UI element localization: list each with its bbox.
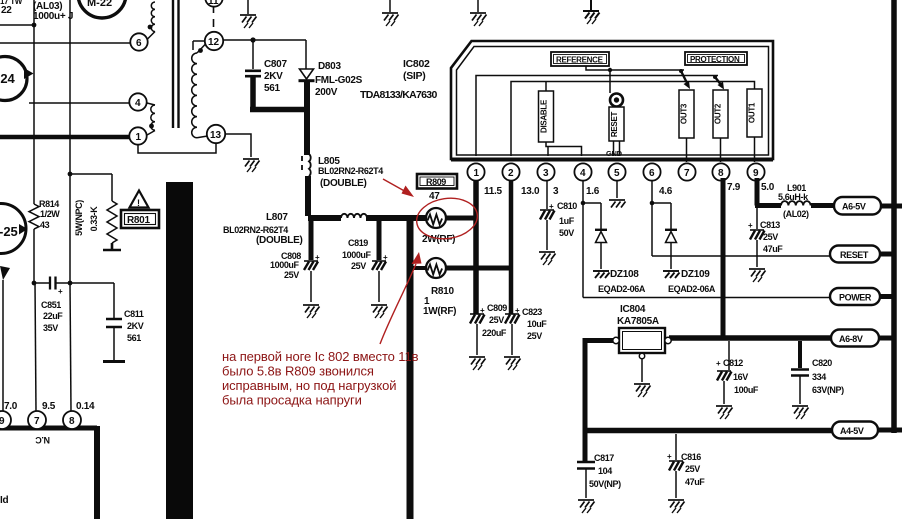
node junction dot C807 top: [250, 37, 255, 42]
svg-text:RESET: RESET: [610, 112, 619, 138]
svg-text:DISABLE: DISABLE: [540, 99, 549, 133]
wire horizontal y43 to pin 6: [0, 42, 130, 44]
wire thick bottom-left horizontal: [0, 426, 97, 431]
svg-text:2KV: 2KV: [264, 71, 283, 82]
svg-text:OUT2: OUT2: [714, 103, 723, 124]
svg-text:C812: C812: [723, 358, 743, 368]
svg-text:10uF: 10uF: [527, 319, 547, 329]
red arrow to R809: [383, 179, 408, 193]
capacitor C817: [577, 462, 595, 498]
svg-text:5.0: 5.0: [761, 182, 775, 193]
pin 5: [608, 163, 625, 180]
pin 3: [537, 163, 554, 180]
svg-text:R809: R809: [426, 177, 446, 187]
svg-text:11.5: 11.5: [484, 186, 502, 197]
svg-text:RESET: RESET: [840, 250, 869, 260]
svg-text:9: 9: [0, 416, 5, 427]
svg-text:2KV: 2KV: [127, 321, 144, 331]
svg-text:5.6uH-k: 5.6uH-k: [778, 192, 809, 202]
svg-text:8: 8: [718, 168, 724, 179]
wire R810 stubs: [413, 266, 426, 270]
svg-text:7: 7: [34, 416, 40, 427]
wire R814 down to C851 row: [33, 229, 35, 283]
svg-text:63V(NP): 63V(NP): [812, 385, 844, 395]
wire pin8 drop: [70, 283, 71, 411]
svg-text:50V: 50V: [559, 228, 574, 238]
ground under C817: [578, 500, 595, 513]
inductor L805: [302, 154, 311, 216]
svg-text:25V: 25V: [351, 261, 366, 271]
pin 6: [643, 163, 660, 180]
svg-text:1/2W: 1/2W: [40, 209, 60, 219]
svg-text:C807: C807: [264, 59, 287, 70]
ground top 4: [583, 0, 600, 24]
block OUT1: [747, 89, 762, 162]
svg-text:KA7805A: KA7805A: [617, 316, 659, 327]
wire thick bottom-left vertical: [94, 426, 100, 519]
wire thick R809 to pin1 column: [446, 216, 478, 221]
svg-text:2: 2: [508, 168, 514, 179]
wire thick A6-8V rail: [669, 335, 831, 341]
svg-text:N.C: N.C: [35, 435, 50, 445]
ground under DZ108: [593, 271, 610, 278]
svg-text:25V: 25V: [527, 331, 542, 341]
svg-text:25V: 25V: [489, 315, 504, 325]
wire branch to DZ108: [583, 203, 601, 229]
pin 9 bottom: [0, 411, 11, 429]
capacitor C823: [505, 314, 520, 355]
svg-text:C813: C813: [760, 220, 780, 230]
node junction pin4 branch: [581, 201, 586, 206]
svg-text:+: +: [480, 306, 485, 315]
svg-text:9.5: 9.5: [42, 401, 56, 412]
svg-text:1W(RF): 1W(RF): [423, 306, 456, 317]
capacitor C813: [750, 208, 765, 267]
wire pin13 to ground: [225, 134, 251, 157]
ground pin5: [609, 200, 626, 208]
wire RESET line: [652, 255, 830, 257]
svg-text:7.0: 7.0: [4, 401, 18, 412]
transformer pin 1: [129, 127, 146, 144]
svg-text:M-22: M-22: [87, 0, 112, 9]
block OUT3: [679, 90, 694, 162]
transformer core: [173, 0, 179, 128]
node junction dot x34 y25: [32, 23, 37, 28]
wire pin7 drop: [35, 283, 36, 411]
waveform circle -24: [0, 57, 34, 101]
svg-text:C816: C816: [681, 452, 701, 462]
wire IC internal pin1 rail: [476, 76, 718, 157]
wire thick A4-5V rail: [585, 428, 832, 434]
ground under pin13: [243, 159, 260, 172]
capacitor C810: [540, 210, 555, 250]
svg-text:47uF: 47uF: [763, 244, 783, 254]
svg-text:D803: D803: [318, 61, 341, 72]
inductor L807: [341, 214, 367, 218]
block DISABLE: [539, 82, 582, 157]
resistor box label R809: [417, 174, 457, 189]
ground under C810: [539, 252, 556, 265]
black bar (scan artifact): [166, 182, 193, 519]
diode D803: [299, 40, 315, 155]
pin 7: [678, 163, 695, 180]
svg-text:C820: C820: [812, 358, 832, 368]
svg-text:+: +: [667, 452, 672, 461]
svg-text:было 5.8в R809 звонился: было 5.8в R809 звонился: [222, 364, 374, 379]
svg-text:43: 43: [40, 220, 50, 230]
pin 7 bottom: [28, 411, 46, 429]
svg-text:+: +: [716, 359, 721, 368]
svg-text:561: 561: [264, 83, 281, 94]
capacitor C820: [791, 341, 809, 404]
waveform circle -25: [0, 204, 28, 254]
resistor R814 zigzag: [29, 204, 39, 229]
node junction pin6 branch: [650, 201, 655, 206]
svg-text:9: 9: [753, 168, 759, 179]
wire horizontal y103 to pin 4: [29, 102, 129, 104]
svg-text:GND: GND: [606, 149, 623, 158]
wire thick pin1 column: [473, 181, 479, 314]
winding polarity dot: [198, 48, 203, 53]
svg-text:(DOUBLE): (DOUBLE): [320, 178, 366, 189]
inductor L901: [781, 201, 811, 205]
svg-text:7: 7: [684, 168, 690, 179]
ground top 3: [470, 0, 487, 26]
capacitor C808: [304, 221, 318, 302]
svg-text:IC802: IC802: [403, 58, 430, 70]
wire thick pin8 column: [721, 178, 726, 338]
svg-text:13: 13: [210, 130, 222, 141]
svg-text:17 TW: 17 TW: [0, 0, 23, 6]
svg-text:13.0: 13.0: [521, 186, 540, 197]
svg-text:C810: C810: [557, 201, 577, 211]
svg-text:TDA8133/KA7630: TDA8133/KA7630: [360, 89, 437, 101]
resistor 0.33K zigzag: [107, 201, 117, 243]
svg-text:35V: 35V: [43, 323, 58, 333]
ground top 2: [382, 0, 399, 26]
svg-text:12: 12: [208, 37, 220, 48]
transformer pin 13: [207, 125, 225, 143]
ground under DZ109: [663, 271, 680, 278]
pin 8: [712, 163, 729, 180]
svg-text:IC804: IC804: [620, 304, 646, 315]
ground under C813: [749, 269, 766, 282]
wire junction to 0.33K resistor: [70, 174, 112, 201]
wire pin4 down to POWER line: [582, 181, 584, 298]
svg-text:47uF: 47uF: [685, 477, 705, 487]
svg-text:22: 22: [1, 5, 12, 16]
block PROTECTION: [685, 52, 747, 65]
pin 4: [574, 163, 591, 180]
transformer winding top-left: [148, 2, 156, 39]
resistor box label R801: [121, 210, 159, 228]
svg-text:7.9: 7.9: [727, 182, 741, 193]
svg-text:+: +: [58, 287, 63, 296]
capacitor C816: [669, 434, 684, 498]
transformer pin 4: [129, 93, 146, 110]
node dot OUT3 rail: [679, 69, 683, 73]
svg-text:1: 1: [474, 168, 480, 179]
wire pin5 to ground: [616, 181, 618, 198]
wire thick pin2 column: [509, 181, 514, 314]
svg-text:A6-8V: A6-8V: [839, 334, 863, 344]
ground under C819: [371, 305, 388, 318]
wire pin12 to the right: [223, 39, 306, 41]
capacitor C812: [717, 341, 732, 404]
ground under IC804: [634, 384, 651, 397]
capacitor C811: [106, 319, 122, 327]
pin 8 bottom: [63, 411, 81, 429]
svg-text:C851: C851: [41, 300, 61, 310]
ground under C808: [303, 305, 320, 318]
transistor arrow into OUT2: [715, 77, 722, 86]
zener DZ108: [595, 230, 607, 269]
svg-text:на первой ноге Ic 802 вместо 1: на первой ноге Ic 802 вместо 11в: [222, 349, 419, 364]
svg-text:25V: 25V: [763, 232, 778, 242]
svg-text:-25: -25: [0, 224, 18, 239]
svg-text:(SIP): (SIP): [403, 70, 425, 82]
svg-text:100uF: 100uF: [734, 385, 759, 395]
svg-text:22uF: 22uF: [43, 311, 63, 321]
svg-text:1000uF: 1000uF: [342, 250, 372, 260]
node junction dot x70 y174: [68, 172, 73, 177]
svg-text:EQAD2-06A: EQAD2-06A: [668, 284, 716, 294]
svg-text:+: +: [515, 306, 520, 315]
ground under C816: [668, 500, 685, 513]
ground under C820: [792, 406, 809, 419]
connector tab A6-8V: [831, 330, 894, 347]
svg-text:была просадка напруги: была просадка напруги: [222, 393, 362, 408]
op-amp regulator IC802 bottom edge bold: [451, 158, 773, 162]
wire pin3 drop: [546, 181, 548, 209]
wire right-edge bus: [891, 0, 897, 433]
svg-text:0.33-K: 0.33-K: [89, 206, 99, 232]
svg-text:220uF: 220uF: [482, 328, 507, 338]
resistor R810 (circled safety resistor): [426, 258, 446, 278]
svg-text:C817: C817: [594, 453, 614, 463]
red arrow to R810: [380, 264, 416, 344]
svg-text:104: 104: [598, 466, 612, 476]
wire C851 row to C811: [70, 283, 114, 318]
wire thick bus y218: [308, 215, 341, 221]
wire thick vertical drop x410: [407, 215, 414, 519]
svg-text:OUT1: OUT1: [748, 102, 757, 123]
transformer pin 12: [205, 32, 223, 50]
svg-text:FML-G02S: FML-G02S: [315, 75, 363, 86]
svg-text:Id: Id: [0, 495, 8, 506]
connector tab RESET: [830, 246, 894, 263]
svg-text:1.6: 1.6: [586, 186, 600, 197]
svg-text:4: 4: [580, 168, 586, 179]
svg-text:25V: 25V: [685, 464, 700, 474]
wire branch to DZ109: [652, 203, 671, 229]
red annotation text: [222, 349, 419, 408]
svg-text:BL02RN2-R62T4: BL02RN2-R62T4: [318, 166, 383, 176]
svg-text:POWER: POWER: [839, 293, 872, 303]
svg-text:C823: C823: [522, 307, 542, 317]
capacitor C809: [470, 314, 485, 355]
block OUT2: [713, 90, 728, 162]
svg-text:1000uF: 1000uF: [270, 260, 300, 270]
svg-text:+: +: [748, 221, 753, 230]
svg-text:4: 4: [135, 98, 141, 109]
svg-text:DZ109: DZ109: [681, 269, 710, 280]
svg-text:561: 561: [127, 333, 141, 343]
node dot OUT2 rail: [713, 75, 717, 79]
svg-text:4.6: 4.6: [659, 186, 673, 197]
waveform circle top: [78, 0, 126, 18]
connector tab POWER: [830, 288, 894, 305]
svg-text:(AL02): (AL02): [783, 209, 809, 219]
svg-text:OUT3: OUT3: [680, 103, 689, 124]
ground top 1: [240, 0, 257, 28]
svg-text:+: +: [315, 253, 320, 262]
node reference junction: [608, 68, 612, 72]
svg-text:3: 3: [543, 168, 549, 179]
svg-text:A6-5V: A6-5V: [842, 202, 866, 212]
svg-text:C811: C811: [124, 309, 144, 319]
svg-text:11: 11: [208, 0, 219, 7]
capacitor C819: [372, 221, 386, 302]
svg-text:R801: R801: [127, 215, 150, 226]
wire POWER line: [583, 297, 830, 299]
wire pin6 down to RESET line: [651, 181, 653, 256]
waveform arrow at left edge: [0, 266, 10, 280]
svg-text:50V(NP): 50V(NP): [589, 479, 621, 489]
transformer winding right: [192, 44, 208, 138]
svg-text:5: 5: [614, 168, 620, 179]
svg-text:+: +: [383, 253, 388, 262]
block REFERENCE: [551, 52, 609, 66]
svg-text:!: !: [137, 198, 140, 208]
svg-text:334: 334: [812, 372, 826, 382]
svg-text:8: 8: [69, 416, 75, 427]
zener DZ109: [665, 230, 677, 269]
pin 9: [747, 163, 764, 180]
connector tab A4-5V: [832, 422, 902, 439]
svg-text:3: 3: [553, 186, 559, 197]
transformer pin 11: [205, 0, 222, 7]
svg-text:BL02RN2-R62T4: BL02RN2-R62T4: [223, 225, 288, 235]
svg-text:-24: -24: [0, 71, 16, 86]
wire thick y137 to pin 1: [0, 135, 130, 140]
pin 1: [467, 163, 484, 180]
svg-text:1000u+ J: 1000u+ J: [33, 11, 73, 22]
op-amp regulator IC802 outline inner: [457, 47, 769, 156]
svg-text:25V: 25V: [284, 270, 299, 280]
ground under C809: [469, 357, 486, 370]
wire vertical A x34: [33, 0, 35, 204]
wire thick L901 to tab: [811, 203, 834, 208]
transformer pin 6: [130, 33, 147, 50]
svg-text:C809: C809: [487, 303, 507, 313]
wire thick pin9 to L901: [755, 178, 781, 206]
svg-text:PROTECTION: PROTECTION: [690, 55, 740, 64]
svg-text:DZ108: DZ108: [610, 269, 639, 280]
wire vertical B x70: [69, 0, 71, 283]
transformer winding mid-left: [147, 103, 155, 135]
resistor R809 (circled safety resistor): [426, 208, 446, 228]
svg-text:6: 6: [136, 38, 142, 49]
svg-text:исправным, но под нагрузкой: исправным, но под нагрузкой: [222, 378, 396, 393]
wire pin9 drop: [2, 280, 4, 411]
wire thick IC804 left to A4-5V corner: [585, 338, 613, 462]
connector tab A6-5V: [834, 197, 902, 215]
block RESET with node circle: [609, 94, 624, 157]
wire thick bus to R809: [366, 215, 427, 221]
svg-text:200V: 200V: [315, 87, 338, 98]
svg-text:5W(NPC): 5W(NPC): [74, 200, 84, 236]
svg-text:EQAD2-06A: EQAD2-06A: [598, 284, 646, 294]
svg-text:(DOUBLE): (DOUBLE): [256, 235, 302, 246]
svg-text:1uF: 1uF: [559, 216, 575, 226]
svg-text:L807: L807: [266, 212, 288, 223]
red ellipse around R809: [414, 194, 480, 242]
wire pin12 left stub: [193, 41, 205, 50]
wire thick C807 to D803 line: [250, 107, 309, 113]
svg-text:A4-5V: A4-5V: [840, 426, 864, 436]
svg-text:0.14: 0.14: [76, 401, 95, 412]
svg-text:C819: C819: [348, 238, 368, 248]
wire dashed pin11 to pin12: [213, 7, 215, 27]
svg-text:16V: 16V: [733, 372, 748, 382]
winding polarity dot: [148, 25, 153, 30]
wire reference to node: [586, 66, 684, 93]
svg-text:R810: R810: [431, 286, 454, 297]
warning triangle: [130, 191, 149, 209]
ground under C823: [504, 357, 521, 370]
wire IC internal rail B: [511, 82, 755, 157]
ground under C812: [716, 406, 733, 419]
capacitor C851: [34, 282, 70, 284]
regulator IC804 KA7805A: [613, 328, 671, 382]
capacitor C807: [245, 40, 261, 109]
svg-text:1: 1: [136, 132, 142, 143]
transistor arrow into OUT3: [681, 71, 688, 85]
pin 2: [502, 163, 519, 180]
winding polarity dot: [149, 124, 154, 129]
svg-text:REFERENCE: REFERENCE: [556, 56, 604, 65]
wire pin1 to pin13 bottom link: [138, 143, 216, 153]
svg-text:6: 6: [649, 168, 655, 179]
svg-text:R814: R814: [39, 199, 59, 209]
svg-text:+: +: [549, 202, 554, 211]
op-amp regulator IC802 outline outer: [451, 41, 773, 159]
wire top-left horizontal to junction: [0, 24, 34, 26]
